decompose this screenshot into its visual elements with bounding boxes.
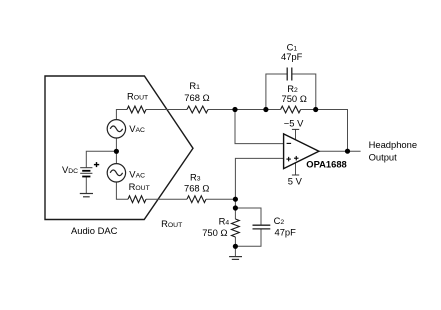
svg-text:5 V: 5 V [288, 176, 303, 187]
svg-text:47pF: 47pF [275, 226, 297, 237]
svg-text:−5 V: −5 V [284, 117, 304, 128]
svg-text:Headphone: Headphone [369, 139, 417, 150]
svg-text:47pF: 47pF [281, 51, 303, 62]
svg-text:OPA1688: OPA1688 [306, 159, 346, 170]
svg-text:750 Ω: 750 Ω [202, 227, 227, 238]
svg-text:750 Ω: 750 Ω [282, 93, 307, 104]
svg-text:Output: Output [369, 152, 398, 163]
svg-text:Audio DAC: Audio DAC [71, 225, 118, 236]
svg-text:768 Ω: 768 Ω [184, 183, 209, 194]
svg-text:768 Ω: 768 Ω [184, 92, 209, 103]
